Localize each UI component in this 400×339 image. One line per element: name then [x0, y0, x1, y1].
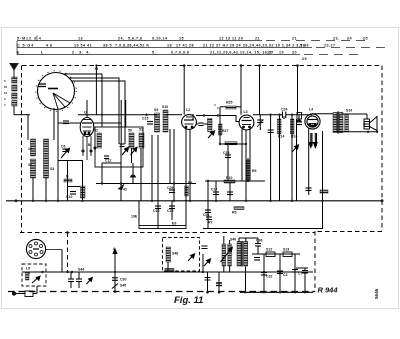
svg-text:R25: R25 [226, 101, 232, 105]
svg-text:C12: C12 [105, 159, 111, 163]
svg-text:21: 21 [255, 37, 260, 41]
svg-text:18: 18 [267, 51, 272, 55]
svg-text:L4: L4 [309, 108, 313, 112]
svg-text:5,6,7,8: 5,6,7,8 [128, 37, 142, 41]
svg-text:42: 42 [123, 188, 127, 192]
svg-text:C26: C26 [167, 186, 173, 190]
svg-text:4: 4 [4, 103, 6, 107]
svg-text:5: 5 [4, 79, 6, 83]
svg-text:50: 50 [128, 129, 132, 133]
svg-text:21 22: 21 22 [203, 44, 214, 48]
svg-text:26,24,44,23,32 10 1,34 2 3,36: 26,24,44,23,32 10 1,34 2 3,36 [243, 44, 305, 48]
svg-text:13: 13 [78, 37, 83, 41]
svg-text:21,22,29,6,42,13,14, 15, 16,17: 21,22,29,6,42,13,14, 15, 16,17 [210, 51, 274, 55]
svg-text:29: 29 [302, 57, 307, 61]
svg-text:C18: C18 [153, 209, 159, 213]
svg-text:B: B [88, 143, 91, 147]
svg-text:25: 25 [363, 37, 368, 41]
svg-text:S45: S45 [120, 284, 126, 288]
svg-text:S13: S13 [283, 248, 289, 252]
svg-text:2. 3. 4.: 2. 3. 4. [72, 51, 91, 55]
svg-text:19: 19 [279, 51, 284, 55]
svg-text:18: 18 [167, 44, 172, 48]
svg-text:5 36: 5 36 [300, 44, 309, 48]
svg-text:4 6: 4 6 [46, 44, 52, 48]
svg-text:12 13 11 20: 12 13 11 20 [219, 37, 243, 41]
svg-text:10 54 41: 10 54 41 [74, 44, 92, 48]
svg-text:R14: R14 [278, 135, 284, 139]
svg-text:20: 20 [292, 51, 297, 55]
svg-text:24: 24 [347, 37, 353, 41]
svg-text:C3: C3 [283, 273, 288, 277]
svg-text:R9: R9 [252, 169, 257, 173]
svg-text:C7: C7 [298, 272, 303, 276]
svg-text:R7: R7 [208, 221, 213, 225]
svg-text:7,9,8,38,44,52 K: 7,9,8,38,44,52 K [115, 44, 149, 48]
svg-text:C23: C23 [223, 151, 229, 155]
svg-text:4: 4 [214, 103, 216, 107]
svg-text:51: 51 [139, 128, 143, 132]
svg-text:R16: R16 [291, 135, 297, 139]
svg-text:C 5 G4: C 5 G4 [17, 44, 34, 48]
svg-text:E: E [17, 51, 20, 55]
svg-text:C21: C21 [203, 213, 209, 217]
svg-text:5-M12 3 4: 5-M12 3 4 [17, 37, 42, 41]
svg-text:6,7,0,9,8: 6,7,0,9,8 [171, 51, 189, 55]
svg-text:L3: L3 [244, 110, 248, 114]
svg-text:5646: 5646 [374, 288, 379, 299]
svg-text:L5: L5 [26, 267, 30, 271]
svg-text:21: 21 [292, 37, 297, 41]
svg-text:C17: C17 [211, 188, 217, 192]
svg-text:S9: S9 [154, 108, 158, 112]
svg-text:2: 2 [217, 106, 219, 110]
svg-text:R 944: R 944 [318, 286, 339, 295]
svg-text:R27: R27 [222, 129, 228, 133]
svg-text:C10: C10 [66, 195, 72, 199]
svg-text:C19: C19 [167, 209, 173, 213]
svg-text:23,27: 23,27 [324, 44, 335, 48]
svg-text:R5: R5 [232, 211, 237, 215]
svg-text:D: D [66, 175, 69, 179]
svg-text:S4: S4 [50, 167, 54, 171]
svg-text:S14: S14 [346, 109, 352, 113]
svg-text:E9: E9 [172, 222, 176, 226]
svg-text:27 HJ 29 24: 27 HJ 29 24 [216, 44, 242, 48]
svg-text:C24: C24 [281, 108, 287, 112]
svg-text:C36: C36 [256, 239, 262, 243]
svg-text:3: 3 [4, 97, 6, 101]
svg-text:38 5: 38 5 [103, 44, 112, 48]
svg-text:23,: 23, [333, 37, 339, 41]
svg-text:15: 15 [179, 37, 184, 41]
svg-text:5.: 5. [152, 51, 156, 55]
svg-text:10: 10 [28, 147, 32, 151]
svg-text:S40: S40 [230, 238, 236, 242]
svg-text:S10: S10 [162, 105, 168, 109]
svg-text:S46: S46 [172, 252, 178, 256]
svg-text:C30: C30 [120, 278, 126, 282]
svg-text:C32: C32 [266, 275, 272, 279]
svg-text:L2: L2 [186, 108, 190, 112]
svg-text:R10: R10 [226, 176, 232, 180]
svg-text:S44: S44 [78, 268, 84, 272]
svg-text:9,10,14: 9,10,14 [152, 37, 168, 41]
svg-text:24,: 24, [118, 37, 124, 41]
svg-text:C6: C6 [61, 145, 66, 149]
svg-text:C15: C15 [142, 117, 148, 121]
svg-text:17 41 28: 17 41 28 [176, 44, 194, 48]
svg-text:Fig. 11: Fig. 11 [174, 295, 203, 306]
svg-text:12: 12 [4, 91, 8, 95]
svg-text:10E: 10E [131, 215, 138, 219]
svg-text:16: 16 [4, 85, 8, 89]
svg-text:L: L [41, 51, 44, 55]
svg-text:52: 52 [94, 129, 98, 133]
svg-text:35: 35 [28, 163, 32, 167]
svg-text:R6: R6 [188, 181, 193, 185]
svg-text:S12: S12 [266, 248, 272, 252]
